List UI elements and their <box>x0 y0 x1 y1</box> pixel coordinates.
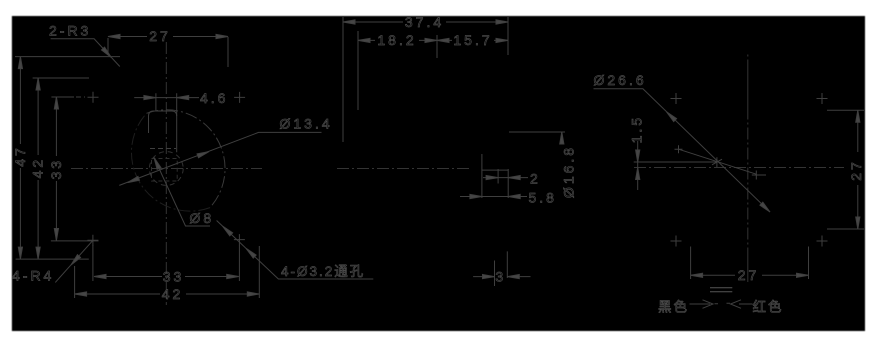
dim 27 bottom right <box>691 247 809 284</box>
wire tip marks <box>715 302 731 305</box>
hole cross bottom-left <box>671 236 682 247</box>
cross at inclined line right end <box>752 171 766 180</box>
dim 15.7 <box>437 32 508 48</box>
dim 18.2 <box>358 31 437 110</box>
svg-text:47: 47 <box>12 145 28 167</box>
dim 42 bottom <box>75 246 260 302</box>
dim 47 <box>12 57 120 260</box>
dim 27 top <box>108 28 228 67</box>
leader d26.6 <box>594 72 772 214</box>
bottom ext line 33 <box>51 240 99 242</box>
dim 33 left <box>48 97 85 241</box>
label red wire <box>731 299 784 315</box>
svg-text:27: 27 <box>848 159 864 181</box>
dim 42 left <box>30 78 89 259</box>
svg-text:27: 27 <box>149 28 171 44</box>
hidden square around shaft <box>152 159 178 182</box>
svg-text:3: 3 <box>495 269 506 285</box>
vertical centerline left view <box>165 42 167 305</box>
hole cross top-right <box>234 92 245 103</box>
label black wire <box>658 299 713 315</box>
dim 33 bottom <box>93 245 240 284</box>
inclined line through center <box>679 149 757 174</box>
svg-text:2-R3: 2-R3 <box>49 23 91 39</box>
dim 1.5 <box>629 115 645 190</box>
dim 27 vertical right <box>827 110 864 229</box>
svg-text:Ø13.4: Ø13.4 <box>280 116 333 132</box>
svg-text:42: 42 <box>162 286 184 302</box>
svg-text:Ø8: Ø8 <box>190 210 215 226</box>
shaft end lines <box>482 154 508 198</box>
centerline shaft middle view <box>337 168 471 170</box>
boss hidden edge <box>150 148 176 150</box>
wire leads <box>710 288 732 292</box>
horizontal centerline right view <box>634 167 844 169</box>
svg-text:4-Ø3.2通孔: 4-Ø3.2通孔 <box>281 264 365 279</box>
leader d8 <box>152 157 214 226</box>
svg-text:42: 42 <box>30 157 46 179</box>
circle d26.6 boss <box>147 110 226 208</box>
svg-text:27: 27 <box>738 267 760 283</box>
vertical centerline right view <box>747 55 749 283</box>
circle shaft d8 <box>149 152 183 186</box>
dim 5.8 <box>460 190 557 206</box>
dim 37.4 <box>343 14 508 142</box>
svg-text:33: 33 <box>163 268 185 284</box>
X mark at center <box>712 157 722 167</box>
bottom ext line 47/42 <box>16 258 89 260</box>
dim 2 <box>483 171 541 187</box>
svg-text:Ø26.6: Ø26.6 <box>594 72 647 88</box>
hole cross top-left <box>671 93 682 104</box>
hole cross bottom-left <box>87 235 98 246</box>
shaft flat line <box>634 161 717 163</box>
horizontal centerline left view <box>71 168 262 170</box>
leader d13.4 <box>119 116 332 186</box>
dim 4.6 <box>134 90 228 152</box>
hole cross bottom-right <box>234 234 245 245</box>
leader 4-d3.2 holes <box>217 221 374 280</box>
svg-text:33: 33 <box>48 158 64 180</box>
dim 3 <box>473 251 530 286</box>
hole cross top-left <box>88 92 99 103</box>
svg-text:黑色: 黑色 <box>658 299 689 315</box>
hole cross bottom-right <box>817 236 828 247</box>
svg-text:Ø16.8: Ø16.8 <box>561 145 577 198</box>
label 2-R3 <box>49 23 120 67</box>
svg-text:4.6: 4.6 <box>200 90 228 106</box>
dim d16.8 <box>509 132 577 198</box>
boss outline <box>149 111 177 133</box>
svg-text:2: 2 <box>530 171 541 187</box>
svg-text:15.7: 15.7 <box>453 32 492 48</box>
hole cross top-right <box>817 93 828 104</box>
svg-text:18.2: 18.2 <box>377 32 416 48</box>
leader 4-R4 <box>12 241 92 284</box>
svg-text:4-R4: 4-R4 <box>12 268 54 284</box>
svg-text:37.4: 37.4 <box>405 14 444 30</box>
cross at inclined line left end <box>675 145 683 153</box>
svg-text:1.5: 1.5 <box>629 115 645 143</box>
svg-text:5.8: 5.8 <box>529 190 557 206</box>
svg-text:红色: 红色 <box>753 299 784 315</box>
